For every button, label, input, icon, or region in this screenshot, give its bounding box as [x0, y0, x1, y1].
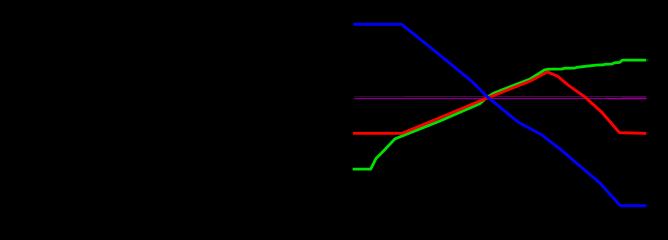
purple threshold line lower [354, 98, 646, 99]
green end antialias speck [647, 59, 648, 61]
blue series line [353, 24, 646, 205]
red end antialias tail [647, 133, 648, 135]
purple threshold line upper (main segment) [405, 96, 646, 97]
purple threshold line upper (dim left segment) [354, 96, 405, 97]
red series line [353, 72, 646, 133]
blue end antialias speck [647, 205, 648, 207]
purple lines merged filler at right end [622, 97, 646, 98]
green series line [353, 60, 647, 169]
purple threshold line lower (brighter right segment) [607, 98, 646, 99]
